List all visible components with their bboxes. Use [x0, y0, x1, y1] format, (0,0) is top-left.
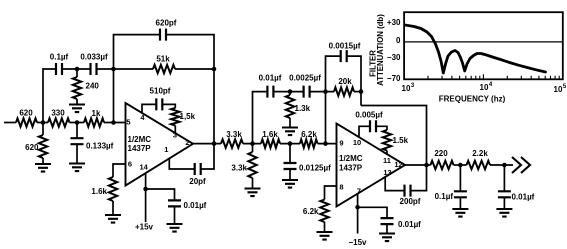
wire node B down to cap [76, 123, 78, 139]
wire pin 13 down [385, 177, 404, 191]
output arrow [512, 157, 530, 173]
svg-text:10: 10 [353, 138, 361, 147]
resistor 330 [48, 118, 70, 126]
node B junction [75, 120, 80, 125]
svg-text:0.0015µf: 0.0015µf [329, 42, 361, 51]
svg-text:+30: +30 [387, 18, 401, 27]
wire 1.6k to ground [112, 201, 114, 215]
wire 3.3k to node C [243, 143, 261, 145]
wire 2.2k to node G [490, 164, 513, 166]
node E junction [323, 141, 328, 146]
node pin5 junction [111, 120, 116, 125]
ground under output 0.1uf [452, 209, 468, 217]
graph frame filter response [404, 12, 563, 79]
wire 0.01uf to branch node [273, 91, 303, 93]
wire 200pf to output rail [411, 165, 427, 191]
capacitor 0.1uf [56, 63, 62, 75]
svg-text:0.01µf: 0.01µf [259, 74, 282, 83]
node 20k right junction [359, 89, 364, 94]
svg-text:3.3k: 3.3k [226, 130, 242, 139]
svg-text:8: 8 [339, 183, 343, 192]
ground under stage2 bypass [379, 234, 395, 242]
svg-text:5: 5 [563, 84, 567, 90]
wire 0.1uf output to ground [459, 197, 461, 209]
svg-text:−70: −70 [387, 74, 401, 83]
svg-text:ATTENUATION (db): ATTENUATION (db) [376, 14, 385, 86]
ground under 1.3k [282, 128, 298, 136]
wire stage2 bypass to ground [386, 224, 388, 233]
svg-text:510pf: 510pf [150, 87, 171, 96]
wire 510pf to 1.5k [162, 104, 175, 108]
svg-text:1/2MC: 1/2MC [128, 135, 152, 144]
svg-text:1k: 1k [92, 109, 101, 118]
resistor 3.3k shunt [248, 152, 256, 178]
wire 220 to node F [454, 164, 467, 166]
node C junction [250, 141, 255, 146]
graph response curve [405, 25, 546, 73]
svg-text:0.1µf: 0.1µf [435, 192, 454, 201]
node op2 output junction [424, 163, 429, 168]
pin 14 junction [143, 187, 148, 192]
svg-text:10: 10 [402, 84, 411, 93]
wire 620pf left rail [114, 35, 161, 69]
wire 0.133uf to ground [76, 144, 78, 163]
ground under 620 shunt [35, 164, 51, 172]
wire 3.3k shunt to ground [252, 178, 254, 189]
wire 0.0015uf right [347, 56, 361, 105]
capacitor 0.01uf coupling [267, 86, 273, 98]
wire pin14 branch to bypass cap [146, 189, 175, 200]
svg-text:1/2MC: 1/2MC [339, 154, 363, 163]
resistor 1k [84, 118, 104, 126]
wire input lead [4, 122, 16, 124]
ground under 1.6k stage1 [105, 215, 121, 223]
svg-text:240: 240 [86, 82, 100, 91]
svg-text:0.01µf: 0.01µf [184, 201, 207, 210]
svg-text:4: 4 [489, 82, 493, 88]
svg-text:220: 220 [434, 149, 448, 158]
resistor 1.6k series stage2 [261, 139, 280, 147]
wire 1.6k to node D [280, 143, 300, 145]
svg-text:330: 330 [51, 109, 65, 118]
wire pin 8 to 6.2k [325, 186, 337, 200]
wire 620 to node A [37, 122, 48, 124]
svg-text:9: 9 [339, 139, 343, 148]
svg-text:10: 10 [480, 83, 489, 92]
wire 0.0125uf to ground [289, 169, 291, 180]
wire node A up to T line [43, 69, 56, 123]
capacitor 0.0025uf [304, 86, 310, 98]
wire 6.2k to pin 9 [318, 143, 337, 145]
resistor 20k feedback [334, 87, 354, 95]
ground under 6.2k shunt [317, 232, 333, 240]
capacitor 620pf [160, 29, 166, 41]
svg-text:0.01µf: 0.01µf [512, 193, 535, 202]
wire pin 14 down [145, 173, 147, 189]
svg-text:200pf: 200pf [400, 197, 421, 206]
wire pin 1 down [169, 158, 194, 169]
wire node C up branch [253, 92, 268, 144]
ground under stage1 bypass [167, 224, 183, 232]
resistor 620 series input [16, 118, 37, 126]
wire 330 to node B [70, 122, 85, 124]
capacitor 0.0015uf [341, 50, 347, 62]
svg-text:620pf: 620pf [156, 19, 177, 28]
svg-text:620: 620 [19, 109, 33, 118]
wire 6.2k shunt to ground [324, 222, 326, 232]
wire 620pf right rail [166, 35, 214, 69]
svg-text:6.2k: 6.2k [303, 207, 319, 216]
resistor 2.2k [467, 161, 491, 169]
ground under 0.0125uf [282, 180, 298, 188]
ground under 0.133uf [69, 164, 85, 172]
graph 0db reference line [404, 41, 563, 43]
wire 620 shunt to ground [42, 158, 44, 164]
svg-text:0.1µf: 0.1µf [50, 53, 69, 62]
capacitor 0.01uf stage1 bypass [168, 200, 181, 206]
svg-text:51k: 51k [156, 55, 170, 64]
node 51k right junction [212, 67, 217, 72]
svg-text:−30: −30 [387, 53, 401, 62]
node 51k left junction [111, 67, 116, 72]
svg-text:12: 12 [394, 160, 402, 169]
wire pin 4 up [142, 104, 156, 113]
ground under output 0.01uf [496, 209, 512, 217]
svg-text:5: 5 [126, 118, 130, 127]
svg-text:10: 10 [554, 85, 563, 94]
capacitor 0.01uf output [498, 191, 511, 197]
wire rail to op1 output node [213, 69, 215, 144]
svg-text:1437P: 1437P [339, 164, 363, 173]
op-amp U1 1/2MC1437P triangle [126, 103, 194, 186]
wire node A down [42, 123, 44, 136]
wire op2 output [405, 164, 431, 166]
svg-text:1.6k: 1.6k [262, 130, 278, 139]
svg-text:20pf: 20pf [189, 177, 206, 186]
capacitor 0.01uf stage2 bypass [381, 218, 394, 224]
svg-text:+15v: +15v [135, 223, 154, 232]
capacitor 200pf [405, 185, 411, 197]
ground under 240 [69, 105, 85, 113]
node T mid junction [75, 67, 80, 72]
wire 0.01uf output to ground [503, 197, 505, 209]
resistor 1.6k stage1 [109, 177, 117, 201]
wire node G down [503, 165, 505, 191]
svg-text:−15v: −15v [348, 238, 367, 247]
svg-text:13: 13 [383, 168, 391, 177]
node F junction [458, 163, 463, 168]
capacitor 0.005uf [370, 120, 376, 132]
wire 1.5k to pin 3 [174, 126, 176, 134]
capacitor 510pf [156, 98, 162, 110]
wire pin 10 up [359, 126, 370, 137]
svg-text:1,5k: 1,5k [180, 112, 196, 121]
node G junction [502, 163, 507, 168]
capacitor 0.0125uf [284, 163, 297, 169]
wire 1k to op-amp pin 5 [104, 122, 126, 124]
wire pin 7 down [357, 194, 359, 208]
wire 51k to right rail [175, 68, 214, 70]
wire node F down [459, 165, 461, 191]
wire op1 output [193, 143, 221, 145]
svg-text:620: 620 [25, 143, 39, 152]
wire node D down to cap [289, 144, 291, 163]
resistor 1.5k stage1 [171, 108, 179, 126]
wire 3.3k shunt lead [252, 144, 254, 152]
wire 1.3k to ground [289, 118, 291, 128]
svg-text:3: 3 [411, 83, 415, 89]
resistor 1.3k [286, 95, 294, 118]
wire 20pf to output rail [201, 144, 214, 169]
svg-text:0.133µf: 0.133µf [86, 142, 114, 151]
wire pin5 rail vertical [113, 69, 115, 123]
resistor 240 [73, 77, 81, 99]
resistor 620 shunt [39, 135, 47, 158]
wire 20k to right rail [354, 91, 361, 93]
svg-text:1.3k: 1.3k [295, 104, 311, 113]
svg-text:1.5k: 1.5k [393, 136, 409, 145]
capacitor 0.133uf [71, 138, 84, 144]
wire pin14 to +15v [145, 189, 147, 222]
capacitor 0.033uf [91, 63, 97, 75]
wire feedback to op2 output [361, 106, 427, 166]
op-amp U2 1/2MC1437P triangle [337, 124, 406, 207]
svg-text:0.005µf: 0.005µf [355, 111, 383, 120]
svg-text:FREQUENCY (hz): FREQUENCY (hz) [439, 95, 506, 104]
svg-text:6.2k: 6.2k [301, 130, 317, 139]
node op1 output junction [212, 141, 217, 146]
wire 0.005uf to 1.5k [376, 126, 387, 130]
svg-text:2: 2 [185, 138, 189, 147]
wire 0.1uf to T mid node [62, 68, 91, 70]
wire node E up [325, 92, 327, 144]
svg-text:1.6k: 1.6k [91, 187, 107, 196]
capacitor 20pf [195, 163, 201, 175]
node 20k left junction [323, 89, 328, 94]
svg-text:11: 11 [383, 156, 391, 165]
wire pin7 branch to bypass [358, 207, 387, 218]
svg-text:1: 1 [164, 145, 168, 154]
resistor 1.5k stage2 [383, 130, 391, 151]
wire bypass cap to ground [174, 206, 176, 224]
svg-text:2.2k: 2.2k [472, 149, 488, 158]
node A junction [41, 120, 46, 125]
ground under 3.3k shunt [245, 189, 261, 197]
resistor 6.2k stage2 shunt [320, 200, 328, 223]
svg-text:0.01µf: 0.01µf [398, 220, 421, 229]
resistor 3.3k series [221, 139, 243, 147]
svg-text:1437P: 1437P [128, 144, 152, 153]
wire pin 6 to 1.6k [113, 164, 126, 177]
resistor 51k feedback [153, 65, 175, 73]
resistor 6.2k series stage2 [300, 139, 318, 147]
wire 240 to ground [76, 99, 78, 105]
svg-text:0: 0 [396, 36, 401, 45]
pin 7 junction [355, 205, 360, 210]
wire 0.0025uf to 20k node [310, 91, 334, 93]
svg-text:14: 14 [140, 163, 149, 172]
wire 0.033uf to pin5 rail [97, 68, 154, 70]
node branch junction [288, 89, 293, 94]
svg-text:0.033µf: 0.033µf [80, 53, 108, 62]
wire 1.5k stage2 to edge [386, 151, 388, 155]
wire T mid down to 240 [76, 69, 78, 77]
svg-text:0.0125µf: 0.0125µf [299, 164, 331, 173]
wire branch node down [289, 92, 291, 95]
svg-text:3.3k: 3.3k [231, 164, 247, 173]
graph axis tick marks [428, 74, 559, 79]
node D junction [288, 141, 293, 146]
svg-text:6: 6 [128, 160, 132, 169]
resistor 220 [431, 161, 454, 169]
capacitor 0.1uf output [454, 191, 467, 197]
wire pin7 to -15v [357, 207, 359, 233]
svg-text:20k: 20k [338, 77, 352, 86]
svg-text:0.0025µf: 0.0025µf [289, 74, 321, 83]
wire 0.0015uf loop [326, 56, 341, 92]
